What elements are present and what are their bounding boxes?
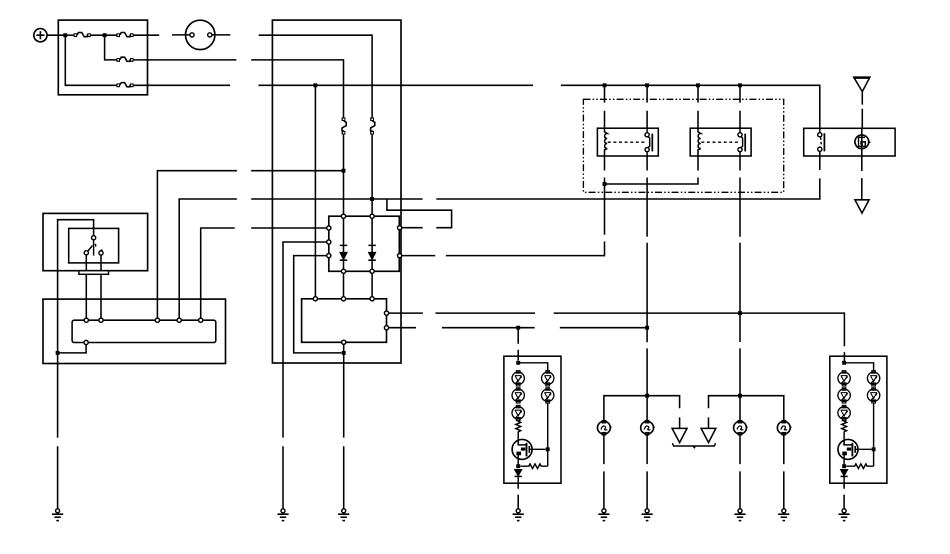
pin: unit top 2: [99, 318, 103, 322]
pin: diode box top 2: [370, 214, 374, 218]
pin: box B top 3: [370, 297, 374, 301]
diode box: [329, 216, 400, 271]
wire bus drops to relay1: [605, 85, 648, 128]
ground under right LED box: [839, 509, 850, 521]
LED B2: [542, 388, 554, 403]
wire row3 out: [134, 84, 231, 86]
pin: diode box bottom 2: [370, 269, 374, 273]
resistor R3: [842, 421, 847, 433]
node: dot FET source: [516, 464, 520, 468]
ground under left LED box: [513, 509, 524, 521]
relay K2 linkage: [701, 141, 739, 143]
transistor Q2 (FET): [838, 439, 871, 466]
relay K1 box: [597, 128, 658, 156]
pin: unit top 1: [84, 318, 88, 322]
LED lamp box left (with driver): [504, 356, 561, 520]
wire diode right pin2 to relay1 coil drop: [402, 184, 605, 256]
wire relay1 contact down to y=327.7 node and bulbs: [646, 156, 648, 421]
control unit inner body: [72, 320, 216, 342]
wire bus right segment to relays and motor switch: [561, 85, 820, 128]
wire row3 drop to control box B pin: [314, 85, 316, 296]
wire bulb L3 to ground: [739, 434, 741, 509]
wire bulb L2 to ground: [646, 434, 648, 509]
wire box B bottom pin to ground drop: [343, 344, 345, 508]
node: dot FET right lead (right box): [872, 447, 876, 451]
wire resistor to transistor: [517, 433, 519, 445]
ground G7 (bulb L4): [778, 509, 789, 521]
resistor R4 feedback: [846, 464, 873, 469]
resistor R1: [516, 421, 521, 433]
motor M: [855, 128, 871, 156]
wire diode left pin3 to module bottom dot: [294, 256, 342, 353]
node: dot right bulb bus: [738, 394, 742, 398]
ground G3: [338, 509, 349, 521]
wire row2 to fuse F6 drop: [251, 60, 343, 118]
wire bulb L1 to ground: [603, 434, 605, 509]
connector/noise condenser circle: [186, 20, 215, 49]
node: dot left bulb bus: [645, 394, 649, 398]
diode D1: [340, 218, 347, 269]
LED A1: [512, 371, 524, 386]
LED box frame: [504, 356, 561, 483]
pin: diode box left 2: [327, 240, 331, 244]
ground G2: [277, 509, 288, 521]
control box B: [302, 299, 387, 343]
wire dot to control unit pin A: [58, 345, 87, 353]
wire fuse1 to dot B: [91, 34, 117, 36]
node: junction dot battery feed A: [63, 33, 67, 37]
wire dot A to fuse 1: [65, 34, 73, 36]
bulb L1: [598, 421, 612, 435]
LED box frame right: [830, 356, 887, 483]
bulb L2: [641, 421, 655, 435]
ignition switch outer box: [43, 213, 148, 270]
node: junction dot y327.7 at relay1 contact column: [645, 326, 649, 330]
wire column B down to drain node right: [873, 403, 875, 466]
pin: diode box right 2: [398, 254, 402, 258]
arrow to courtesy circuit left: [672, 428, 687, 442]
wire F6 to dot and diode box pin: [343, 135, 345, 217]
ignition connector bar: [79, 271, 109, 275]
wire row2 from dot B down and right: [105, 35, 117, 60]
relay K2 coil: [698, 128, 701, 156]
diode D4: [841, 470, 848, 484]
node: junction dot B: [103, 33, 107, 37]
wire row3 from dot A down and right: [65, 35, 116, 85]
wire feed to column B: [518, 363, 548, 372]
ignition switch contacts: [84, 236, 103, 256]
bulb L4: [777, 421, 791, 435]
wire bulb L4 to ground: [783, 434, 785, 509]
LED lamp box right (with driver) - copy: [830, 356, 887, 520]
pin: unit top 4: [177, 318, 181, 322]
wire coil link to relay2 coil: [605, 156, 699, 184]
LED A3 right: [838, 405, 850, 420]
pin: diode box right 1: [398, 226, 402, 230]
pin: unit bottom left: [84, 340, 88, 344]
node: bus dot relay1 contact: [645, 83, 649, 87]
node: junction dot y313 to right bulbs: [738, 311, 742, 315]
fuse F2: [116, 33, 133, 38]
diode D2: [368, 218, 375, 269]
wire feed to column B right: [844, 363, 874, 372]
pin: diode box left 1: [327, 226, 331, 230]
ground G4 (bulb L1): [598, 509, 609, 521]
pin: diode box bottom 1: [341, 269, 345, 273]
relay K2 contact: [738, 128, 745, 156]
LED B1 right: [867, 371, 879, 386]
motor box switch: [818, 128, 825, 156]
pin: box B right 2: [384, 326, 388, 330]
wire connector to main harness: [212, 34, 230, 36]
wire left bulb bus: [604, 396, 680, 429]
wire row2 out: [134, 59, 237, 61]
node: bus dot relay2 coil: [696, 83, 700, 87]
wire box B right pin1 net y=313.1: [389, 313, 845, 361]
pin: box B right 1: [384, 311, 388, 315]
fuse F5 vertical: [370, 117, 375, 134]
node: junction dot under box B: [342, 351, 346, 355]
LED B1: [542, 371, 554, 386]
node: bus dot relay1 coil: [603, 83, 607, 87]
relay K1 linkage: [608, 141, 646, 143]
pin: unit top 5: [199, 318, 203, 322]
LED A2: [512, 388, 524, 403]
wire diode left pin2 to ground drop: [283, 242, 327, 509]
page arrow from above (antenna): [854, 77, 870, 128]
page arrow below motor: [855, 156, 869, 213]
node: bus dot relay2 contact: [738, 83, 742, 87]
relay K1 contact: [645, 128, 652, 156]
wire F5 to dot and diode box pin: [371, 135, 373, 217]
pin: diode box left 3: [327, 254, 331, 258]
fuse F1: [74, 33, 91, 38]
wire row3 bus segment with junction to module: [259, 84, 534, 86]
wire right bulb bus: [709, 396, 784, 429]
node: dot LED box feed: [516, 361, 520, 365]
wire column B down to drain node: [547, 403, 549, 466]
wire battery to fuse box: [47, 34, 65, 36]
wire ignition feed to ground/control pin: [58, 220, 94, 509]
LED B2 right: [867, 388, 879, 403]
wire jog connecting diode box right pin 1 to y=199 net: [387, 199, 452, 228]
node: junction dot F5/main line: [370, 197, 374, 201]
transistor Q1 (FET): [512, 439, 545, 466]
pin: diode box top 1: [341, 214, 345, 218]
wire LED box to ground: [517, 483, 519, 509]
fuse F3: [116, 57, 133, 62]
node: dot FET source (right box): [842, 464, 846, 468]
node: junction dot ignition common: [56, 351, 60, 355]
pin: box B top 2: [341, 297, 345, 301]
fuse F4: [116, 83, 133, 88]
wire relay1 coil to link node: [604, 156, 606, 184]
node: dot FET right lead: [546, 447, 550, 451]
wire to connector circle: [172, 34, 190, 36]
resistor R2 feedback: [520, 464, 547, 469]
wire ignition pins down to control unit: [86, 255, 101, 320]
LED A2 right: [838, 388, 850, 403]
node: junction dot row3/module feed: [313, 83, 317, 87]
node: junction dot F6/sense line: [342, 169, 346, 173]
bulb L3: [734, 421, 748, 435]
fuse F6 vertical: [342, 117, 347, 134]
main module outer box: [272, 20, 401, 363]
node: junction dot relay coil link: [603, 182, 607, 186]
wire control-unit pin up to diode box left pin 1 (y=228 net): [201, 228, 327, 320]
wire box B right pin2 net y=327.7: [389, 327, 647, 329]
pin: box B bottom: [342, 340, 346, 344]
arrow to courtesy circuit right: [701, 428, 716, 442]
relay K1 coil: [605, 128, 608, 156]
LED A1 right: [838, 371, 850, 386]
wire control-unit pin up to F6 dot (y=170.7 net): [157, 171, 343, 321]
bracket under arrows: [672, 443, 715, 448]
wire left LED box feed: [517, 328, 519, 361]
LED A3: [512, 405, 524, 420]
ground G6 (bulb L3): [734, 509, 745, 521]
ground G1 (ignition net): [52, 509, 63, 521]
wire diode bottom pins to control box B: [344, 273, 373, 296]
wire fuse2 out of box: [134, 34, 160, 36]
wire control-unit pin up, main line y=199 to motor switch: [179, 151, 820, 320]
wire right LED box to ground: [843, 483, 845, 509]
ignition switch inner box: [69, 228, 119, 263]
battery positive terminal: [34, 29, 47, 42]
node: junction dot y327.7 to left LED box: [516, 326, 520, 330]
relay K2 box: [690, 128, 751, 156]
ground G5 (bulb L2): [642, 509, 653, 521]
relay assembly dashed enclosure: [583, 99, 783, 192]
wire harness row1 to fuse F5 drop: [259, 35, 372, 117]
motor switch box: [804, 128, 895, 156]
diode D3: [515, 470, 522, 484]
control unit box A: [43, 299, 226, 363]
wire resistor to transistor right: [843, 433, 845, 445]
pin: box B top 1: [313, 297, 317, 301]
wire relay2 contact down to y=313.1 node and bulbs: [739, 156, 741, 421]
pin: unit top 3: [155, 318, 159, 322]
wire bus drops to relay2: [698, 85, 740, 128]
node: dot LED box feed right: [842, 361, 846, 365]
fuse box: [58, 20, 147, 95]
